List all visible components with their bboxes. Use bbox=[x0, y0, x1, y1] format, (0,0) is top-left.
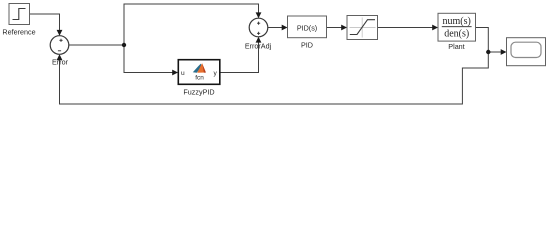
svg-text:fcn: fcn bbox=[195, 75, 204, 82]
svg-text:u: u bbox=[181, 70, 185, 77]
svg-text:ErrorAdj: ErrorAdj bbox=[245, 42, 272, 51]
svg-text:Plant: Plant bbox=[448, 42, 464, 51]
svg-text:Reference: Reference bbox=[2, 27, 35, 36]
svg-text:Error: Error bbox=[52, 58, 69, 67]
svg-text:num(s): num(s) bbox=[443, 16, 471, 27]
svg-text:PID(s): PID(s) bbox=[297, 24, 317, 33]
svg-text:PID: PID bbox=[301, 40, 313, 49]
svg-text:den(s): den(s) bbox=[444, 29, 469, 40]
svg-text:FuzzyPID: FuzzyPID bbox=[183, 88, 214, 97]
